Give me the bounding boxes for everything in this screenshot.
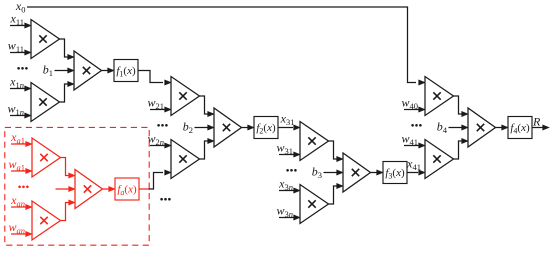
svg-text:f3(x): f3(x) (385, 167, 405, 180)
svg-text:f2(x): f2(x) (256, 122, 276, 135)
svg-text:fa(x): fa(x) (117, 184, 137, 197)
svg-text:f4(x): f4(x) (510, 122, 530, 135)
svg-text:f1(x): f1(x) (116, 65, 136, 78)
svg-text:R: R (532, 115, 541, 129)
